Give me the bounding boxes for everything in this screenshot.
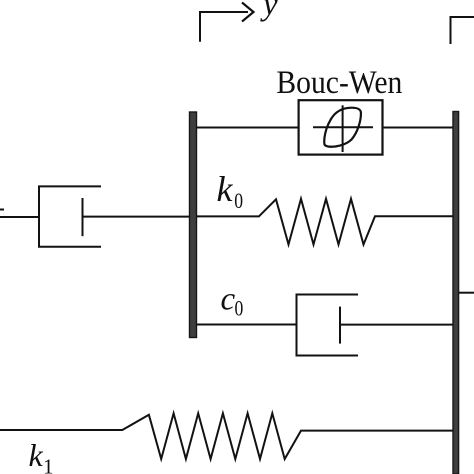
svg-text:y: y [260,0,278,23]
wire [0,216,39,218]
arrow x (cropped at right edge) [451,17,474,44]
spring k0 [197,199,454,245]
rigid bar left [190,112,197,338]
damper c1 rod wire [83,216,191,218]
wire bar to Bouc-Wen box [197,127,299,129]
damper c0 rod wire [340,324,453,326]
Bouc-Wen box [299,100,383,154]
output wire x [459,292,474,294]
svg-text:0: 0 [235,296,244,321]
svg-text:k: k [217,169,234,209]
rigid bar right [453,112,459,474]
hysteresis vertical axis [342,105,344,152]
damper c1 piston [82,198,84,236]
svg-text:1: 1 [43,454,54,474]
svg-text:k: k [29,437,44,473]
spring k1 [0,413,453,459]
hysteresis horizontal axis [313,126,373,128]
damper c0 cylinder [297,295,359,356]
damper c1 cylinder [39,186,101,246]
svg-text:Bouc-Wen: Bouc-Wen [276,65,402,101]
wire bar to damper c0 [197,324,297,326]
hysteresis loop [324,108,361,147]
cropped label tick at left edge [0,209,4,211]
svg-text:c: c [221,282,236,318]
wire box to right bar [383,127,454,129]
svg-text:0: 0 [234,188,243,213]
arrow y [200,12,248,42]
damper c0 piston [339,307,341,344]
